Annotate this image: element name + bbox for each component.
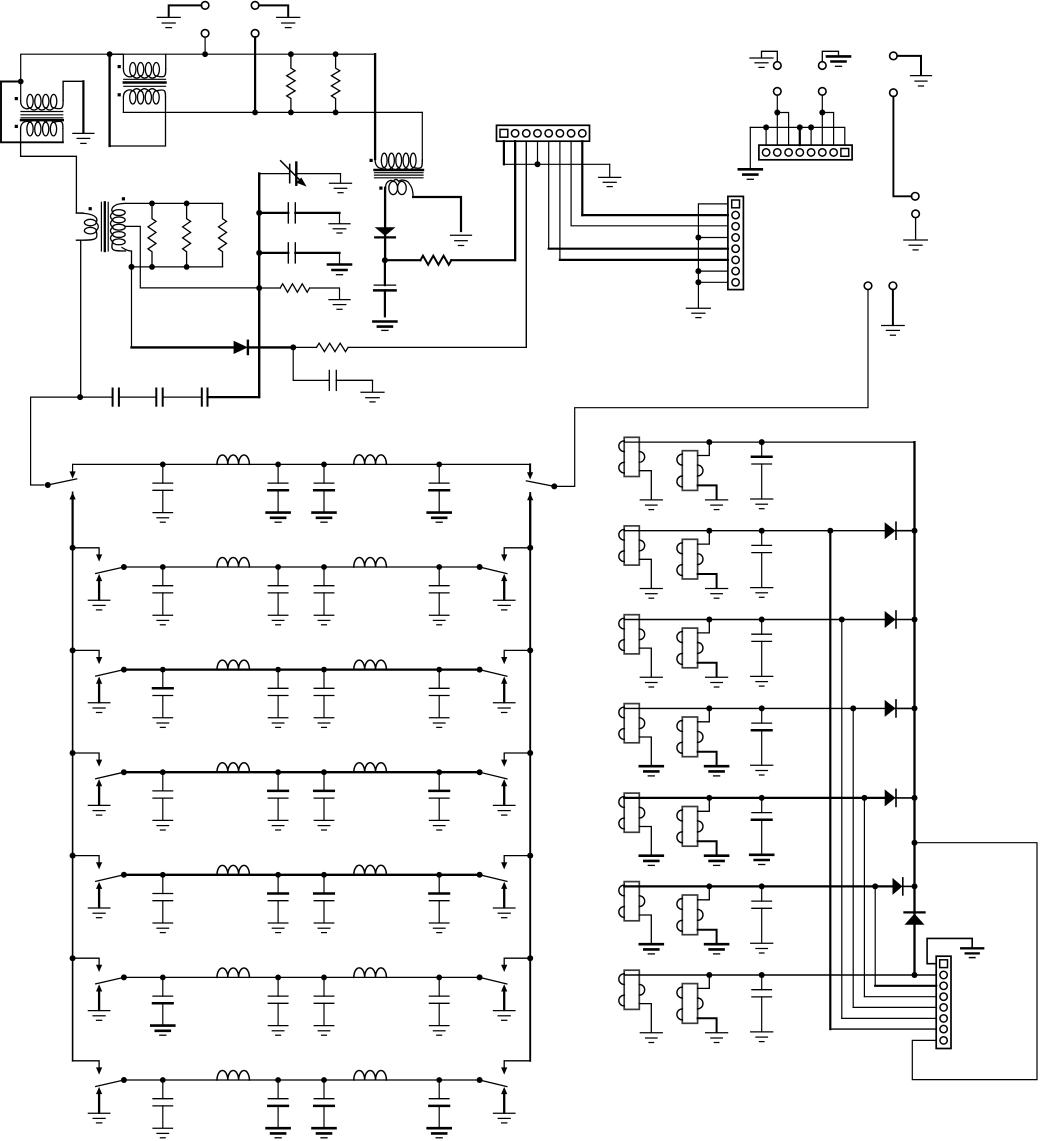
switch S4 left arm bbox=[96, 772, 124, 779]
switch S2 left arm bbox=[96, 567, 124, 574]
wire row 7 left link bbox=[73, 1061, 103, 1075]
wire row2 to J3 bbox=[830, 531, 936, 1029]
wire filter row 7 line bbox=[124, 1079, 480, 1081]
wire T1a ground lead bbox=[639, 471, 651, 499]
wire J1 pin5 to J2 pin5 bbox=[549, 141, 728, 249]
capacitor row4 CA bbox=[153, 772, 173, 830]
capacitor row1 CD bbox=[428, 464, 451, 522]
ground at S6 left bbox=[88, 1011, 110, 1021]
junction dot J10 branch bbox=[819, 110, 825, 116]
capacitor row6 CB bbox=[268, 977, 288, 1035]
switch S3 right arm bbox=[480, 670, 507, 677]
junction dot T4b feed bbox=[706, 705, 712, 711]
junction dot C8 node bbox=[256, 250, 262, 256]
wire T3b ground lead bbox=[698, 663, 717, 677]
wire left bank input drop bbox=[31, 397, 44, 485]
junction dot T4 lead bbox=[77, 394, 83, 400]
junction dots T4 resistor bus bbox=[129, 201, 190, 270]
junction dot row2 tap bbox=[827, 528, 833, 534]
wire J1 pin3 lead bbox=[525, 141, 527, 347]
capacitor row5 CD bbox=[429, 875, 449, 933]
ground at T1 bbox=[73, 133, 94, 143]
ground at T4b bbox=[705, 766, 728, 776]
junction dot J2 pin8 stub bbox=[695, 279, 701, 285]
transformer T4 core bbox=[101, 202, 108, 251]
switch S1 left pivot bbox=[45, 482, 51, 488]
switch S2 left pivot bbox=[121, 564, 127, 570]
wire C2 to ground bbox=[336, 380, 372, 391]
inductor L2a bbox=[217, 558, 249, 567]
phase dot T1 secondary bbox=[15, 125, 18, 128]
junction dot diode row6 bus bbox=[912, 883, 918, 889]
junction dot right rail row 4 bbox=[527, 750, 533, 756]
capacitor row5 CC bbox=[314, 875, 334, 933]
capacitor C5 bbox=[202, 389, 208, 406]
switch S6 right arm bbox=[480, 977, 507, 984]
wire right bank row 5 bbox=[624, 797, 914, 799]
wire D1 node to resistor bbox=[385, 259, 421, 261]
switch S7 right pivot bbox=[477, 1077, 483, 1083]
connector J3 pins bbox=[940, 971, 947, 1044]
capacitor row6 CA bbox=[151, 977, 174, 1035]
wire J11 to ground bbox=[762, 51, 778, 61]
ground at S5 left bbox=[88, 908, 110, 918]
ground at S7 left bbox=[88, 1113, 110, 1123]
jack J9 tip bbox=[774, 88, 782, 96]
capacitor C7 bbox=[259, 203, 339, 223]
tuned coil T3b bbox=[677, 628, 703, 668]
wire J17 to left bank bbox=[554, 290, 868, 487]
resistor R5 bbox=[183, 203, 191, 267]
wire T5a ground lead bbox=[639, 827, 651, 855]
wire D2 to node bbox=[248, 346, 293, 348]
wire main vertical bus bbox=[258, 174, 260, 398]
capacitor C row4 bbox=[752, 708, 772, 764]
wire filter row 6 line bbox=[124, 976, 480, 978]
wire row 2 right link bbox=[501, 548, 530, 562]
junction dot left rail row 4 bbox=[70, 750, 76, 756]
wire row 7 right link bbox=[501, 1061, 530, 1075]
wire row 2 left link bbox=[73, 548, 103, 562]
wire J18 to ground bbox=[892, 290, 894, 325]
switch S5 right pivot bbox=[477, 872, 483, 878]
inductor L6b bbox=[354, 968, 387, 978]
tuned coil T2a bbox=[619, 526, 645, 565]
inductor L4b bbox=[354, 763, 387, 773]
junction dot row5 tap bbox=[861, 795, 867, 801]
transformer T4 primary winding bbox=[76, 213, 98, 240]
ground at J16 bbox=[904, 240, 928, 250]
ground at C row3 bbox=[751, 676, 773, 686]
inductor L3b bbox=[354, 660, 387, 670]
junction dot J2 pin4 stub bbox=[695, 235, 701, 241]
phase dot T3 secondary bbox=[379, 187, 382, 190]
junction dot D2 node bbox=[290, 344, 296, 350]
capacitor C2 bbox=[327, 370, 373, 390]
junction dot C row3 bbox=[759, 617, 765, 623]
capacitor row6 CD bbox=[429, 977, 449, 1035]
capacitor row3 CC bbox=[314, 670, 334, 728]
wire R7 to J1 pin3 bbox=[348, 141, 526, 347]
transformer T2 secondary winding bbox=[123, 89, 165, 104]
wire T4 secondary top bus bbox=[126, 202, 223, 204]
switch S5 right ground arrow bbox=[501, 882, 507, 908]
capacitor row2 CA bbox=[153, 567, 173, 625]
junction dots filter row 6 bbox=[160, 975, 442, 981]
ground at S2 right bbox=[493, 600, 515, 610]
wire to diode D2 bbox=[132, 267, 234, 348]
switch S2 right pivot bbox=[477, 564, 483, 570]
wire filter row 4 line bbox=[124, 771, 480, 773]
wire T4 secondary bottom lead bbox=[122, 248, 132, 267]
capacitor C row7 bbox=[752, 975, 772, 1031]
ground at C8 bbox=[328, 265, 351, 275]
junction dot row6 tap bbox=[872, 883, 878, 889]
junction dot diode row3 bus bbox=[912, 617, 918, 623]
diode D row3 bbox=[885, 611, 896, 628]
wire J2 pin8 stub bbox=[698, 281, 728, 283]
wire jack J7 to bus bbox=[204, 37, 206, 54]
ground at C row7 bbox=[751, 1032, 773, 1042]
inductor L4a bbox=[217, 763, 249, 772]
switch S7 left arm bbox=[96, 1080, 124, 1087]
ground at T3b bbox=[706, 677, 728, 687]
junction dot left rail row 6 bbox=[70, 955, 76, 961]
wire J3 pin1 to ground bbox=[927, 938, 972, 963]
junction dot D1 node bbox=[382, 257, 388, 263]
wire T2a ground lead bbox=[639, 559, 651, 587]
junction dots on top bus bbox=[107, 51, 339, 57]
wire series-cap bus bbox=[31, 396, 113, 398]
switch S3 left arm bbox=[96, 670, 124, 677]
switch S4 right ground arrow bbox=[501, 779, 507, 805]
junction dot C row2 bbox=[759, 528, 765, 534]
ground at C row5 bbox=[750, 855, 773, 865]
capacitor C3 bbox=[113, 389, 157, 406]
wire J14 to J15 bbox=[893, 97, 911, 197]
wire row 5 left link bbox=[73, 856, 103, 870]
jack J11 tip bbox=[774, 62, 782, 70]
wire J4 pin5 stub bbox=[810, 127, 812, 145]
transformer T3 primary winding bbox=[375, 153, 422, 169]
wire row 6 right link bbox=[501, 958, 530, 972]
wire J12 to ground bbox=[822, 51, 838, 61]
switch S6 right pivot bbox=[477, 974, 483, 980]
capacitor row1 CB bbox=[267, 464, 290, 522]
jack J12 tip bbox=[819, 62, 827, 70]
inductor L1b bbox=[354, 455, 387, 465]
ground at S3 left bbox=[88, 703, 110, 713]
capacitor row5 CB bbox=[268, 875, 288, 933]
wire T7b feed bbox=[698, 975, 710, 988]
capacitor row4 CB bbox=[268, 772, 288, 830]
diode D3 vertical bbox=[905, 912, 925, 924]
switch S3 left pivot bbox=[121, 667, 127, 673]
junction dot T1b feed bbox=[706, 439, 712, 445]
transformer T1 primary winding bbox=[21, 94, 64, 110]
switch S1 left ground-side arrow bbox=[70, 492, 76, 547]
transformer T3 secondary winding bbox=[386, 179, 414, 197]
jack J7 tip bbox=[201, 30, 209, 38]
wire T3 secondary left lead bbox=[384, 188, 386, 228]
ground at C6 bbox=[330, 183, 352, 193]
wire T3a ground lead bbox=[639, 648, 651, 676]
resistor R7 bbox=[293, 343, 348, 351]
junction dot T6b feed bbox=[706, 883, 712, 889]
connector J2 bbox=[728, 196, 744, 289]
wire T5b feed bbox=[698, 798, 710, 811]
junction dots filter row 4 bbox=[160, 769, 442, 775]
connector J4 pins bbox=[762, 149, 837, 156]
jack J10 tip bbox=[819, 88, 827, 96]
wire J13 to ground bbox=[897, 56, 921, 75]
wire T4a ground lead bbox=[639, 737, 651, 765]
wire D2 node down bbox=[293, 347, 329, 380]
wire T3 primary left lead bbox=[374, 54, 376, 159]
junction dots filter row 5 bbox=[160, 872, 442, 878]
ground at J12 bold bbox=[827, 56, 850, 66]
wire varcap row bbox=[259, 173, 290, 175]
wire T3 secondary right to ground bbox=[413, 197, 461, 231]
junction dot C row7 bbox=[759, 972, 765, 978]
tuned coil T5b bbox=[677, 807, 703, 847]
wire T1b feed bbox=[698, 442, 710, 455]
diode D row5 bbox=[885, 789, 896, 806]
inductor L7b bbox=[354, 1070, 387, 1080]
wire row 4 right link bbox=[501, 753, 530, 767]
tuned coil T1b bbox=[677, 451, 703, 491]
wire filter row 2 line bbox=[124, 566, 480, 568]
resistor R6 bbox=[219, 203, 227, 267]
resistor R2 bbox=[331, 54, 339, 112]
wire T1 bracket loop bbox=[1, 82, 63, 143]
tuned coil T4a bbox=[619, 704, 645, 743]
wire jack J8 down to mid bus bbox=[254, 37, 256, 112]
capacitor C1 at D1 node bbox=[374, 260, 395, 316]
wire jack J6 to ground bbox=[259, 5, 288, 16]
capacitor row3 CA bbox=[153, 670, 173, 728]
wire T7b ground lead bbox=[698, 1018, 717, 1032]
junction dot right rail row 6 bbox=[527, 955, 533, 961]
capacitor row4 CC bbox=[314, 772, 334, 830]
wire J1 pin1 lead bbox=[504, 141, 610, 164]
ground at jack J5 bbox=[157, 17, 180, 27]
phase dot T2 primary bbox=[118, 65, 121, 68]
switch S2 right arm bbox=[480, 567, 507, 574]
transformer T1 secondary winding bbox=[21, 120, 63, 136]
switch S5 left pivot bbox=[121, 872, 127, 878]
wire row5 to J3 bbox=[864, 798, 936, 997]
wire T3b feed bbox=[698, 620, 710, 633]
ground at T1a bbox=[640, 500, 662, 510]
capacitor row2 CB bbox=[268, 567, 288, 625]
junction dot diode row4 bus bbox=[912, 705, 918, 711]
wire row3 to J3 bbox=[842, 620, 936, 1019]
ground at J11 bbox=[750, 58, 773, 67]
wire T6a ground lead bbox=[639, 915, 651, 943]
switch S4 left pivot bbox=[121, 769, 127, 775]
wire J4 pin4 stub bbox=[799, 127, 801, 145]
ground at T2a bbox=[640, 589, 662, 599]
phase dot T4 secondary bbox=[122, 197, 125, 200]
ground at T6b bbox=[705, 944, 728, 954]
wire J4 bus to ground bbox=[749, 127, 751, 168]
switch S1 right throw contact bbox=[527, 464, 533, 479]
wire filter row 3 line bbox=[124, 668, 480, 670]
phase dot T4 primary bbox=[89, 207, 92, 210]
wire T1 secondary right lead bbox=[62, 129, 64, 143]
wire J1 pin8 to J2 pin2 bbox=[582, 141, 728, 215]
inductor L5b bbox=[354, 865, 387, 875]
junction dots filter row 7 bbox=[160, 1077, 442, 1083]
wire right bank row 3 bbox=[624, 619, 914, 621]
wire T2 secondary right loop bbox=[110, 54, 166, 146]
diode D row2 bbox=[885, 522, 896, 539]
wire J2 pin4 stub bbox=[698, 237, 728, 239]
transformer T3 core bbox=[375, 170, 424, 178]
ground at T4a bbox=[640, 766, 663, 776]
switch S3 left ground arrow bbox=[96, 677, 102, 703]
inductor L6a bbox=[217, 968, 249, 977]
junction dots filter row 1 bbox=[160, 462, 442, 468]
ground at S4 right bbox=[493, 805, 515, 815]
wire left rail bbox=[72, 492, 74, 1061]
ground at J13 bbox=[911, 76, 932, 86]
wire right bank row 2 bbox=[624, 530, 914, 532]
connector J2 pins bbox=[732, 211, 739, 286]
switch S1 left arm bbox=[48, 479, 77, 485]
junction dot row3 tap bbox=[839, 617, 845, 623]
connector J1 pins bbox=[511, 130, 586, 137]
ground at J1 bbox=[599, 177, 621, 186]
wire J16 to ground bbox=[915, 218, 917, 240]
wire filter row 5 line bbox=[124, 874, 480, 876]
junction dot row7 bus bbox=[912, 972, 918, 978]
switch S5 left arm bbox=[96, 875, 124, 882]
wire T1 primary right to ground bbox=[63, 81, 83, 133]
ground at T5a bbox=[640, 856, 663, 866]
capacitor row3 CB bbox=[268, 670, 288, 728]
junction dot R8 node bbox=[256, 285, 262, 291]
resistor R3 bbox=[420, 256, 451, 265]
capacitor C row1 bbox=[752, 442, 772, 498]
wire row 6 left link bbox=[73, 958, 103, 972]
inductor L2b bbox=[354, 557, 387, 567]
inductor L5a bbox=[217, 865, 249, 874]
capacitor row2 CC bbox=[314, 567, 334, 625]
jack J18 tip bbox=[889, 282, 897, 290]
connector J3 pin1 bbox=[940, 960, 948, 968]
tuned coil T6a bbox=[619, 882, 645, 921]
resistor R1 bbox=[287, 54, 295, 112]
wire right rail bbox=[529, 493, 531, 1061]
wire row4 to J3 bbox=[853, 708, 936, 1007]
wire row 3 right link bbox=[501, 650, 530, 664]
junction dots mid bus bbox=[252, 110, 338, 116]
capacitor row2 CD bbox=[429, 567, 449, 625]
capacitor row7 CA bbox=[153, 1080, 173, 1138]
tuned coil T1a bbox=[619, 437, 645, 476]
transformer T4 secondary winding bbox=[111, 203, 126, 251]
junction dot bus loop bbox=[912, 840, 918, 846]
tuned coil T7b bbox=[677, 984, 703, 1024]
wire T4 secondary tap bbox=[125, 226, 259, 288]
wire row 3 left link bbox=[73, 650, 103, 664]
junction dot diode row2 bus bbox=[912, 528, 918, 534]
junction dot row4 tap bbox=[850, 705, 856, 711]
capacitor row7 CB bbox=[267, 1080, 290, 1138]
ground at C row6 bbox=[751, 943, 773, 953]
wire T7a ground lead bbox=[639, 1004, 651, 1032]
switch S5 right arm bbox=[480, 875, 507, 882]
switch S6 left arm bbox=[96, 977, 124, 984]
junction dot T7b feed bbox=[706, 972, 712, 978]
junction dot right rail row 2 bbox=[527, 545, 533, 551]
capacitor row4 CD bbox=[429, 772, 449, 830]
switch S4 right pivot bbox=[477, 769, 483, 775]
switch S6 left ground arrow bbox=[96, 984, 102, 1010]
switch S1 right ground-side arrow bbox=[527, 493, 533, 548]
wire T6b ground lead bbox=[698, 930, 717, 944]
wire J4 bus bbox=[750, 127, 845, 145]
capacitor C row2 bbox=[752, 531, 772, 587]
capacitor row1 CC bbox=[313, 464, 336, 522]
inductor L1a bbox=[217, 455, 249, 464]
jack J16 tip bbox=[912, 210, 920, 218]
jack J14 tip bbox=[890, 89, 898, 97]
switch S2 left ground arrow bbox=[96, 574, 102, 600]
switch S7 right arm bbox=[480, 1080, 507, 1087]
ground at S6 right bbox=[493, 1011, 515, 1021]
ground at C row4 bbox=[751, 765, 773, 775]
switch S6 left pivot bbox=[121, 974, 127, 980]
switch S3 right ground arrow bbox=[501, 677, 507, 703]
connector J2 pin1 bbox=[732, 200, 740, 208]
junction dot pin4 gnd bbox=[535, 161, 541, 167]
variable capacitor C6 bbox=[290, 163, 341, 185]
ground at J3 pin1 bbox=[961, 948, 983, 957]
wire mid bus N2 bbox=[123, 111, 422, 113]
wire T2 secondary left lead bbox=[122, 97, 124, 112]
junction dot T2b feed bbox=[706, 528, 712, 534]
junction dots filter row 2 bbox=[160, 564, 442, 570]
jack J17 tip bbox=[864, 282, 872, 290]
wire T2 primary right lead bbox=[165, 54, 167, 69]
ground at S5 right bbox=[493, 908, 515, 918]
junction dot node T1 bbox=[18, 79, 24, 85]
capacitor row6 CC bbox=[314, 977, 334, 1035]
wire T1b ground lead bbox=[698, 485, 717, 499]
wire J3 pin8 loop bbox=[912, 843, 1037, 1080]
ground at J18 bbox=[882, 326, 905, 336]
ground at R8 bbox=[329, 300, 350, 310]
switch S7 left pivot bbox=[121, 1077, 127, 1083]
wire J2 pin7 stub bbox=[698, 270, 728, 272]
transformer T2 primary winding bbox=[123, 63, 165, 79]
ground at T2b bbox=[706, 589, 728, 599]
wire J2 pin1 ground rail bbox=[698, 204, 728, 308]
ground at S2 left bbox=[88, 600, 110, 610]
diode D row6 bbox=[893, 878, 903, 895]
junction dot left rail row 2 bbox=[70, 545, 76, 551]
switch S4 left ground arrow bbox=[96, 779, 102, 805]
wire row6 to J3 bbox=[875, 886, 936, 985]
wire T1 secondary left to T4 bbox=[21, 129, 77, 214]
tuned coil T5a bbox=[619, 793, 645, 832]
wire T5b ground lead bbox=[698, 841, 717, 855]
capacitor C8 bbox=[259, 243, 339, 264]
phase dot T3 primary bbox=[370, 159, 373, 162]
